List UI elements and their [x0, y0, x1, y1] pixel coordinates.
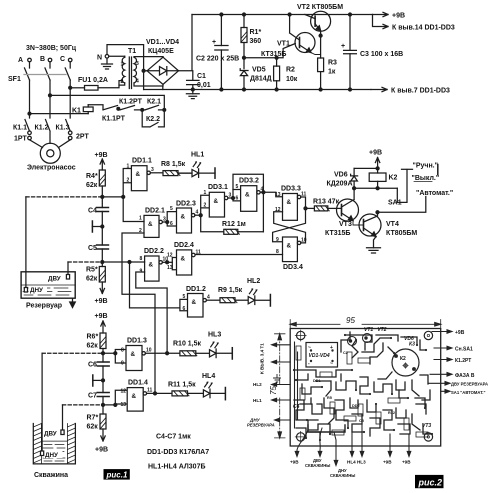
svg-text:+9В: +9В [95, 298, 108, 305]
wire phase B down [49, 80, 51, 118]
dashed wire to well DVU [63, 404, 104, 406]
svg-text:С4: С4 [293, 404, 300, 410]
svg-text:"Автомат.": "Автомат." [416, 190, 453, 197]
+9V arrow below R7 [95, 429, 108, 454]
svg-text:VD6: VD6 [334, 172, 348, 179]
common bar electrode between C6 C7 [93, 375, 105, 386]
node base wire [243, 56, 246, 59]
gate DD3.4 [276, 237, 307, 271]
svg-text:A: A [18, 57, 23, 64]
dashed wire to well DNU [42, 352, 103, 354]
svg-text:C1: C1 [197, 73, 206, 80]
svg-text:DD1.2: DD1.2 [186, 286, 206, 293]
dashed wire to reservoir DNU [26, 196, 102, 198]
svg-text:+: + [341, 43, 345, 50]
svg-text:DD3.1: DD3.1 [208, 184, 228, 191]
svg-text:1к: 1к [328, 69, 336, 76]
capacitor C2 [196, 13, 239, 91]
svg-text:&: & [192, 299, 197, 306]
resistor R5 62k [86, 262, 105, 283]
svg-text:К1.1РТ: К1.1РТ [102, 116, 126, 123]
wire DD3.2 out to DD3.3 [260, 192, 282, 197]
LED HL4 [202, 373, 225, 400]
dashed wire to reservoir DVU [68, 261, 102, 263]
svg-text:VT2 КТ805БМ: VT2 КТ805БМ [297, 4, 343, 11]
svg-text:С5: С5 [359, 419, 364, 423]
transistor VT4 KT805BM [359, 212, 417, 248]
svg-text:ФАЗА В: ФАЗА В [455, 373, 475, 379]
bridge rectifier VD1-VD4 KC405E [144, 39, 180, 86]
svg-text:8: 8 [121, 348, 124, 354]
svg-text:КТ315Б: КТ315Б [325, 230, 350, 237]
node phase A [28, 112, 31, 115]
svg-text:рис.2: рис.2 [418, 478, 443, 488]
svg-text:62к: 62к [87, 424, 99, 431]
svg-text:13: 13 [275, 192, 281, 198]
svg-text:62к: 62к [86, 276, 98, 283]
svg-text:DD2.1: DD2.1 [145, 208, 165, 215]
label ris.1 [104, 469, 130, 480]
svg-text:11: 11 [147, 388, 153, 394]
svg-text:C4: C4 [88, 208, 97, 215]
svg-text:VD1-VD4: VD1-VD4 [309, 353, 330, 359]
capacitor C7 [88, 380, 109, 405]
capacitor C6 [88, 353, 109, 380]
reservoir tank [21, 272, 75, 310]
svg-text:HL2: HL2 [247, 278, 260, 285]
diode VD6 KD209A [327, 168, 358, 188]
resistor R1 360 [241, 13, 261, 69]
capacitor C4 [88, 197, 109, 227]
component outlines small [296, 346, 428, 437]
svg-text:R9 1,5к: R9 1,5к [218, 287, 243, 294]
svg-text:DD3.2: DD3.2 [239, 178, 259, 185]
svg-text:R12: R12 [388, 411, 395, 415]
svg-text:SA1 "АВТОМАТ.": SA1 "АВТОМАТ." [451, 390, 485, 395]
feedback wire DD3.2 [233, 174, 263, 232]
svg-text:HL4: HL4 [202, 373, 215, 380]
wire DD2.2 pin9 from DD1.3 out [136, 272, 167, 353]
switch SF1 [8, 62, 70, 83]
transistor VT3 KT315B [325, 187, 364, 237]
svg-text:5: 5 [236, 184, 239, 190]
svg-text:&: & [149, 262, 154, 269]
svg-text:HL4 HL3: HL4 HL3 [347, 460, 366, 465]
svg-text:К1.1: К1.1 [13, 125, 27, 132]
svg-text:+9В: +9В [95, 313, 108, 320]
svg-text:ДВУ: ДВУ [44, 431, 57, 438]
left label HL1 [253, 398, 290, 403]
svg-text:СКВАЖИНЫ: СКВАЖИНЫ [330, 473, 355, 478]
svg-text:&: & [136, 171, 141, 178]
left label K vyv 3,4 T1 [260, 343, 291, 374]
gate DD1.4 [103, 380, 153, 412]
left label HL2 [253, 382, 290, 387]
svg-text:C: C [60, 56, 65, 63]
right arrow SA1 Avtomat [441, 390, 486, 395]
svg-text:6: 6 [183, 306, 186, 312]
wire C5 node down to DD1.2 [130, 262, 180, 308]
wire DD2.3 out node [195, 214, 201, 216]
svg-text:62к: 62к [87, 343, 99, 350]
svg-text:9: 9 [276, 237, 279, 243]
svg-text:C4-C7 1мк: C4-C7 1мк [156, 434, 191, 441]
svg-text:К1.2: К1.2 [35, 125, 49, 132]
svg-text:R7*: R7* [87, 415, 99, 422]
svg-text:К2: К2 [400, 356, 406, 362]
+9V arrow above R4 [95, 152, 108, 170]
contact K2.1 [142, 99, 166, 112]
svg-text:DD1.4: DD1.4 [128, 380, 148, 387]
svg-text:VT3: VT3 [422, 423, 431, 429]
svg-text:К1.2РТ: К1.2РТ [119, 99, 143, 106]
svg-text:РЕЗЕРВУАРА: РЕЗЕРВУАРА [247, 423, 275, 428]
svg-text:R5: R5 [327, 396, 332, 400]
svg-text:-: - [308, 361, 310, 367]
resistor R13 47k [306, 199, 342, 211]
wire C4 node to DD2.1 pin1 [123, 197, 144, 222]
svg-text:+9В: +9В [392, 13, 405, 20]
gate DD2.1 [139, 208, 166, 238]
terminal B [40, 56, 52, 63]
svg-text:2: 2 [121, 79, 124, 85]
svg-text:1: 1 [121, 62, 124, 68]
svg-text:R11 1,5к: R11 1,5к [168, 382, 196, 389]
svg-text:C7: C7 [88, 393, 97, 400]
svg-text:Электронасос: Электронасос [27, 165, 76, 172]
pcb trace left rail [295, 342, 298, 428]
wire K2 bottom rail [354, 187, 397, 189]
svg-text:R8 1,5к: R8 1,5к [161, 161, 186, 168]
well DNU electrode [41, 353, 44, 455]
arrow K vyv.14 DD1-DD3 [373, 15, 455, 32]
svg-text:&: & [148, 221, 153, 228]
pcb traces middle band [294, 370, 430, 408]
svg-text:VT3: VT3 [339, 221, 352, 228]
transformer T1 [119, 48, 163, 90]
right arrow DVU rezervuara [428, 382, 488, 387]
svg-text:К2.1: К2.1 [147, 99, 161, 106]
svg-text:1: 1 [204, 190, 207, 196]
wire DD1.1 out to R8 [150, 172, 163, 174]
svg-text:12: 12 [121, 389, 127, 395]
motor Electronasos [27, 132, 76, 172]
svg-text:360: 360 [250, 38, 262, 45]
left ground symbol [274, 375, 281, 383]
wire phase C down [69, 80, 71, 118]
svg-text:СКВАЖИНЫ: СКВАЖИНЫ [305, 463, 330, 468]
svg-text:3N~380В; 50Гц: 3N~380В; 50Гц [26, 45, 77, 52]
svg-text:0,01: 0,01 [197, 82, 211, 89]
svg-text:+9В: +9В [95, 447, 108, 454]
svg-text:&: & [181, 214, 186, 221]
gate DD2.4 [167, 242, 201, 275]
transistor pads VT1 VT2 [348, 334, 372, 346]
dimension 95 [290, 316, 441, 329]
LED HL1 [178, 152, 215, 179]
contact K2.2 [142, 110, 164, 127]
ground under VT4 [367, 248, 381, 253]
svg-text:13: 13 [121, 402, 127, 408]
reservoir DNU electrode [24, 197, 27, 292]
pcb trace bottom left U [308, 425, 345, 432]
svg-text:5: 5 [170, 206, 173, 212]
svg-text:&: & [287, 199, 292, 206]
contact K1.3 [56, 120, 71, 132]
contact K1.1 [13, 120, 30, 132]
svg-text:R3: R3 [328, 60, 337, 67]
svg-text:&: & [245, 192, 250, 199]
svg-text:95: 95 [346, 316, 355, 325]
ground under C1 [186, 88, 199, 99]
svg-text:Д814Д: Д814Д [250, 76, 272, 83]
bottom arrows and labels [290, 430, 308, 465]
resistor R7 62k [87, 405, 107, 431]
wire DD3.1 out to DD3.2 [228, 197, 233, 199]
svg-text:K2: K2 [389, 174, 398, 181]
tiny component labels [313, 351, 395, 423]
svg-text:К1.2РТ: К1.2РТ [455, 358, 471, 364]
mounting hole bottom left [295, 431, 306, 442]
svg-text:62к: 62к [86, 182, 98, 189]
ground under N [102, 58, 113, 69]
mounting hole bottom right [424, 433, 432, 441]
top rail +9V [192, 14, 373, 16]
zener VD5 D814D [240, 67, 271, 92]
+9V arrow above R6 [95, 313, 108, 333]
svg-text:Скважина: Скважина [34, 472, 68, 479]
rectifier block VD1-VD4 [306, 343, 338, 368]
svg-text:1РТ: 1РТ [14, 136, 27, 143]
LED HL2 [247, 278, 270, 306]
pcb traces lower band [294, 398, 432, 440]
contact K1.1PT [88, 105, 125, 123]
svg-text:VD1...VD4: VD1...VD4 [146, 39, 179, 46]
svg-text:ДНУ: ДНУ [45, 452, 58, 459]
relay coil K1 [72, 105, 93, 115]
svg-text:3: 3 [151, 167, 154, 173]
right arrow Faza V [430, 373, 475, 379]
gate DD3.1 [201, 184, 232, 217]
svg-text:9: 9 [121, 361, 124, 367]
svg-text:R1*: R1* [250, 29, 262, 36]
capacitor C5 [88, 227, 109, 263]
ground rail to K vyv.7 [144, 89, 371, 91]
svg-text:C6: C6 [88, 362, 97, 369]
gate DD2.3 [167, 201, 198, 234]
node bridge minus [142, 69, 145, 72]
svg-text:&: & [214, 198, 219, 205]
svg-text:2РТ: 2РТ [76, 134, 89, 141]
svg-text:+9В: +9В [383, 460, 392, 465]
svg-text:К выв.7 DD1-DD3: К выв.7 DD1-DD3 [391, 88, 450, 95]
svg-text:К ВЫВ. 3,4 Т1: К ВЫВ. 3,4 Т1 [260, 343, 265, 374]
svg-text:HL1-HL4 АЛ307Б: HL1-HL4 АЛ307Б [148, 464, 206, 471]
terminal N and wire [97, 45, 144, 90]
svg-text:DD3.3: DD3.3 [281, 186, 301, 193]
node R6 C6 [102, 352, 105, 355]
thermal contact 1PT [14, 131, 31, 143]
capacitor C1 [187, 73, 211, 94]
svg-text:HL1: HL1 [253, 398, 262, 403]
terminal C [60, 56, 72, 63]
svg-text:&: & [131, 351, 136, 358]
pcb traces upper [341, 332, 428, 384]
svg-text:8: 8 [140, 256, 143, 262]
arrow K vyv.7 DD1-DD3 [371, 87, 450, 94]
wire DD2.1 out to DD2.3 [162, 221, 167, 223]
wire SA1 avtomat to VT4 collector [378, 197, 426, 213]
transistor VT2 KT805BM [297, 4, 343, 58]
node C5 R5 [101, 261, 104, 264]
node phase B [49, 94, 52, 97]
wire DD2.4 out to DD3.4 pin8 [195, 254, 283, 256]
svg-text:R10 1,5к: R10 1,5к [173, 341, 202, 348]
svg-text:C2 220 x 25В: C2 220 x 25В [196, 56, 239, 63]
svg-text:2: 2 [127, 178, 130, 184]
contact K1.2PT [118, 99, 143, 112]
svg-text:HL3: HL3 [208, 332, 221, 339]
svg-text:DD2.2: DD2.2 [144, 248, 164, 255]
svg-text:R13 47к: R13 47к [313, 199, 340, 206]
svg-text:КТ805БМ: КТ805БМ [386, 230, 417, 237]
resistor R10 1.5k [145, 341, 209, 356]
svg-text:SF1: SF1 [8, 76, 21, 83]
svg-text:10: 10 [301, 238, 307, 244]
svg-text:13: 13 [167, 265, 173, 271]
node C7 R7 [102, 403, 105, 406]
svg-text:VT1: VT1 [277, 41, 290, 48]
svg-text:6: 6 [236, 196, 239, 202]
svg-text:R4*: R4* [86, 173, 98, 180]
svg-text:T1: T1 [128, 48, 136, 55]
node phase C to fuse [69, 86, 72, 89]
svg-text:C3 100 x 16В: C3 100 x 16В [360, 51, 403, 58]
thermal contact 2PT [68, 131, 89, 141]
gate DD2.2 [140, 248, 169, 281]
wire node to DD1.1 inputs [102, 169, 131, 197]
svg-text:6: 6 [170, 221, 173, 227]
transistor VT1 KT315B [261, 13, 315, 58]
wire DD2.2 out to DD2.4 [162, 261, 172, 263]
svg-text:"Выкл.": "Выкл." [412, 175, 440, 182]
wire base VT1 [244, 44, 295, 58]
dimension 75 [269, 334, 285, 438]
svg-text:КТ315Б: КТ315Б [261, 51, 286, 58]
svg-text:Резервуар: Резервуар [26, 303, 62, 310]
resistor R4 62k [86, 170, 105, 197]
svg-text:4: 4 [136, 79, 139, 85]
+9V arrow below R5 [95, 282, 108, 305]
svg-text:3: 3 [136, 61, 139, 67]
svg-text:DD1.1: DD1.1 [132, 158, 152, 165]
svg-text:R2: R2 [286, 67, 295, 74]
node R4 C4 [101, 195, 104, 198]
svg-text:+9В: +9В [369, 150, 382, 157]
resistor R9 1.5k [206, 287, 248, 303]
bottom center notes [147, 434, 209, 471]
wire C5 node to DD2.2 pin8 [104, 261, 145, 263]
svg-text:+9В: +9В [402, 460, 411, 465]
resistor R3 1k [318, 58, 337, 91]
svg-text:HL1: HL1 [191, 152, 204, 159]
svg-text:DD1: DD1 [313, 379, 321, 383]
wire DD3.3 out to R13 [301, 197, 306, 208]
svg-text:+9В: +9В [455, 330, 465, 336]
well DVU electrode [61, 405, 64, 435]
svg-text:ДВУ РЕЗЕРВУАРА: ДВУ РЕЗЕРВУАРА [451, 382, 488, 387]
gate DD3.2 [233, 178, 264, 212]
svg-text:&: & [132, 393, 137, 400]
svg-text:R6*: R6* [87, 334, 99, 341]
svg-text:FU1 0,2A: FU1 0,2A [78, 77, 108, 84]
svg-text:10: 10 [146, 348, 152, 354]
svg-text:11: 11 [196, 250, 202, 256]
svg-text:2: 2 [204, 203, 207, 209]
terminal A [18, 57, 31, 64]
relay K2 circle [392, 349, 419, 376]
svg-text:+: + [212, 39, 216, 46]
well borehole [33, 424, 75, 480]
left label DNU rezervuara [247, 418, 290, 428]
svg-text:5: 5 [183, 294, 186, 300]
resistor R11 1.5k [147, 382, 204, 396]
svg-text:Сн.SA1: Сн.SA1 [455, 347, 473, 353]
resistor R8 1.5k [161, 161, 192, 176]
mounting hole top right [424, 331, 432, 339]
svg-text:DD2.3: DD2.3 [176, 201, 196, 208]
svg-text:VT4: VT4 [386, 221, 399, 228]
svg-text:КЦ405Е: КЦ405Е [148, 48, 174, 55]
svg-text:1: 1 [127, 164, 130, 170]
latch cross coupling [273, 208, 306, 243]
label ris.2 [415, 475, 444, 488]
svg-text:12: 12 [167, 253, 173, 259]
svg-text:HL2: HL2 [253, 382, 262, 387]
right arrow Sn.SA1 [434, 346, 473, 352]
+9V arrow above K2 [369, 150, 382, 169]
capacitor C3 [341, 13, 403, 91]
mounting hole top left [295, 330, 306, 341]
svg-text:&: & [181, 256, 186, 263]
svg-text:КД209А: КД209А [327, 181, 353, 188]
svg-text:+9В: +9В [290, 460, 299, 465]
gate DD1.3 [103, 338, 152, 371]
label VD6 K3 [404, 336, 415, 348]
svg-text:10к: 10к [286, 76, 298, 83]
arrow +9V top [373, 12, 406, 19]
contact K1.2 [35, 120, 51, 132]
gate DD3.3 [275, 186, 307, 221]
reservoir DVU electrode [66, 262, 69, 279]
right arrow +9V [432, 330, 465, 336]
wire DD1.4 out to DD2.1 pin2 [122, 233, 155, 393]
wire bridge plus to C1 and top rail [179, 15, 193, 81]
right arrow K1.2PT [434, 358, 471, 364]
board outline [290, 329, 441, 447]
svg-text:75: 75 [269, 386, 278, 395]
svg-text:VD5: VD5 [252, 67, 266, 74]
resistor R12 1M [201, 215, 264, 234]
wire phase B to contacts [50, 95, 164, 110]
svg-text:DD1.3: DD1.3 [127, 338, 147, 345]
svg-text:ДВУ: ДВУ [48, 276, 61, 283]
svg-text:C5: C5 [88, 245, 97, 252]
wire K1 bottom to phase A [30, 113, 89, 115]
relay coil K2 [354, 167, 397, 188]
svg-text:DD2: DD2 [352, 404, 360, 408]
drain arrow below reservoir [70, 298, 76, 307]
